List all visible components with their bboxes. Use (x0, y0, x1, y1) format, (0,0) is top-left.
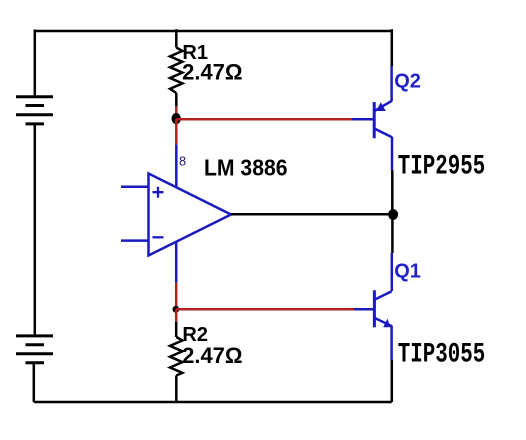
wire node C to Q1 collector black (391, 215, 394, 254)
value label 2.47ohm for R1 (182, 60, 242, 85)
wire node B to Q1 base red (176, 308, 354, 311)
wire Q1 collector lead blue (391, 253, 394, 291)
wire Q2 collector lead black (391, 170, 394, 215)
wire Q1 emitter lead blue (390, 326, 393, 361)
op-amp minus sign (153, 236, 164, 238)
svg-text:8: 8 (179, 154, 186, 169)
transistor Q1 collector (375, 291, 392, 299)
label R1 (182, 42, 208, 64)
svg-text:Q2: Q2 (394, 71, 421, 93)
value label 2.47ohm for R2 (182, 343, 242, 368)
resistor R1 (170, 48, 182, 94)
wire Q2 base blue (352, 118, 374, 121)
op-amp U1 triangle (149, 174, 232, 256)
wire Q2 collector lead blue (391, 137, 394, 170)
node B (173, 306, 180, 313)
wire op-amp output (231, 213, 393, 216)
wire R1 bottom lead black (175, 93, 178, 106)
wire pin 4 blue (175, 242, 178, 283)
label LM3886 (204, 155, 288, 181)
wire pin 8 blue (175, 144, 178, 187)
svg-text:LM 3886: LM 3886 (204, 155, 288, 181)
node A (172, 113, 181, 124)
wire Q1 emitter lead black (391, 360, 394, 402)
transistor Q2 body bar (373, 102, 376, 138)
label Q1 (394, 261, 421, 283)
svg-text:TIP3055: TIP3055 (398, 339, 486, 370)
wire top rail (34, 30, 393, 33)
wire noninverting input (121, 186, 149, 189)
wire left vertical bottom (33, 363, 36, 402)
label TIP2955 (398, 151, 486, 182)
wire R1 top lead (175, 29, 178, 47)
wire node A to Q2 base red (176, 118, 352, 121)
svg-text:Q1: Q1 (394, 261, 421, 283)
node C (388, 209, 398, 220)
label R2 (182, 324, 208, 346)
wire left vertical middle (34, 124, 37, 336)
wire left vertical top (34, 30, 37, 97)
op-amp plus sign (153, 187, 164, 198)
pin number 8 (179, 154, 186, 169)
transistor Q1 body bar (373, 290, 376, 327)
wire Q2 emitter lead black (391, 29, 394, 66)
wire node A to pin 8 red (175, 119, 178, 144)
svg-text:TIP2955: TIP2955 (398, 151, 486, 182)
transistor Q2 emitter (375, 101, 392, 111)
wire bottom rail (34, 401, 392, 404)
svg-text:2.47Ω: 2.47Ω (182, 343, 242, 368)
wire Q1 base blue (354, 308, 374, 311)
wire R2 top lead black (175, 322, 178, 337)
wire R1 to node A red (175, 106, 178, 119)
transistor Q1 emitter (375, 318, 392, 327)
battery B1 (16, 97, 53, 124)
wire Q2 emitter lead blue (390, 66, 393, 102)
battery B2 (16, 336, 53, 363)
label TIP3055 (398, 339, 486, 370)
wire inverting input (121, 239, 149, 242)
label Q2 (394, 71, 421, 93)
wire node B to R2 red (175, 309, 178, 321)
resistor R2 (170, 337, 182, 376)
transistor Q2 collector (375, 129, 392, 137)
svg-text:2.47Ω: 2.47Ω (182, 60, 242, 85)
wire pin 4 to node B red (175, 282, 178, 309)
wire R2 bottom lead (175, 376, 178, 404)
